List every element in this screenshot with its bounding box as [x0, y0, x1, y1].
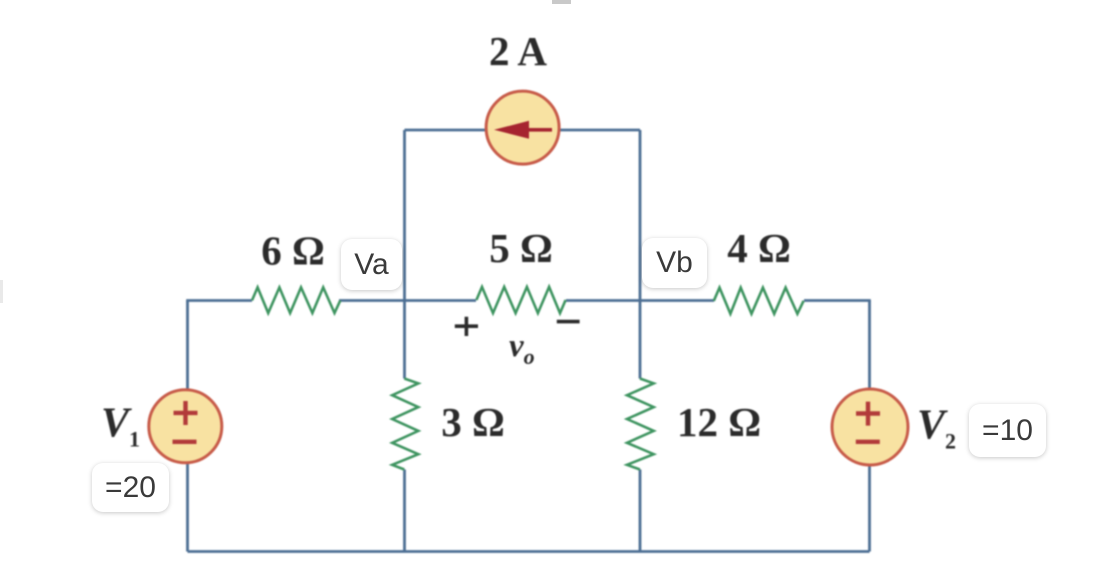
scrollbar artifact top — [552, 0, 571, 4]
value box =20 — [92, 463, 169, 512]
wire right vertical — [868, 301, 871, 552]
svg-text:12 Ω: 12 Ω — [677, 399, 761, 445]
svg-text:V2: V2 — [917, 403, 956, 454]
voltage source V2 — [832, 389, 908, 465]
svg-text:6 Ω: 6 Ω — [261, 228, 325, 274]
voltage source V1 — [149, 390, 222, 463]
svg-text:vo: vo — [509, 328, 535, 369]
svg-text:2 A: 2 A — [489, 28, 547, 74]
svg-text:4 Ω: 4 Ω — [727, 225, 791, 271]
wire left vertical — [186, 301, 189, 552]
resistor R 3ohm — [392, 379, 418, 470]
svg-text:5 Ω: 5 Ω — [489, 225, 553, 271]
resistor R 12ohm — [627, 379, 654, 470]
wire top horizontal — [405, 129, 641, 132]
label vo plus — [455, 317, 478, 336]
wire middle-left vertical lower — [403, 470, 406, 552]
wire bottom — [188, 550, 870, 553]
wire right of 4ohm — [804, 299, 871, 302]
resistor R 4ohm — [714, 288, 804, 314]
resistor R 5ohm — [476, 287, 565, 313]
svg-text:3 Ω: 3 Ω — [441, 399, 505, 445]
value box =10 — [969, 404, 1046, 457]
wire middle-right vertical lower — [639, 470, 642, 552]
wire middle-right vertical upper — [639, 130, 642, 379]
node Va box — [341, 239, 402, 290]
wire main horizontal left of 6ohm — [186, 299, 252, 302]
current source I1 2A — [486, 91, 559, 164]
wire between 6ohm and 5ohm — [339, 299, 476, 302]
artifact left edge — [0, 280, 3, 303]
label vo minus — [557, 320, 580, 324]
wire middle-left vertical upper — [403, 130, 406, 379]
svg-text:V1: V1 — [101, 401, 140, 452]
resistor R 6ohm — [252, 287, 340, 313]
node Vb box — [642, 238, 707, 288]
wire between 5ohm and 4ohm — [566, 299, 714, 302]
